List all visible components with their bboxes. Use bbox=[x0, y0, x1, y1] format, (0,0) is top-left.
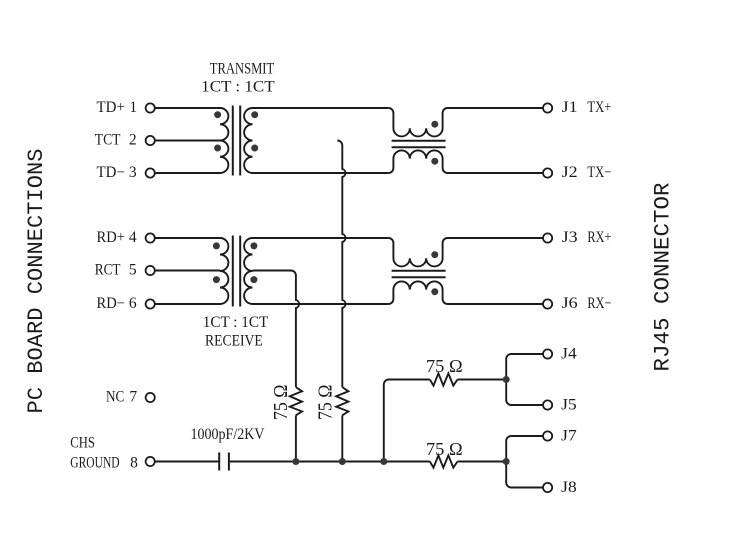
choke L2 bottom winding to J6 bbox=[388, 281, 543, 304]
resistor R4 75ohm zigzag bbox=[430, 455, 458, 467]
wire T2 secondary top to L2 bbox=[253, 237, 389, 239]
svg-text:1: 1 bbox=[129, 99, 137, 116]
svg-text:PC BOARD CONNECTIONS: PC BOARD CONNECTIONS bbox=[24, 149, 49, 414]
resistor R1 75ohm zigzag bbox=[290, 387, 302, 415]
svg-text:1CT : 1CT: 1CT : 1CT bbox=[203, 314, 269, 331]
junction node B bbox=[292, 458, 299, 465]
pin 2 terminal circle bbox=[146, 136, 155, 145]
transformer T1 secondary winding bbox=[244, 108, 252, 173]
svg-text:J6: J6 bbox=[562, 295, 578, 312]
svg-text:6: 6 bbox=[129, 295, 137, 312]
pin 3 terminal circle bbox=[146, 168, 155, 177]
svg-text:7: 7 bbox=[129, 389, 137, 406]
svg-text:TX+: TX+ bbox=[587, 99, 611, 116]
svg-text:J5: J5 bbox=[561, 397, 577, 414]
svg-text:J7: J7 bbox=[561, 428, 577, 445]
capacitor C1 1000pF/2KV plates bbox=[219, 453, 229, 471]
choke L2 core bbox=[392, 271, 446, 278]
choke L1 bottom winding to J2 bbox=[388, 150, 543, 173]
wire pin2 to T1 primary center tap bbox=[155, 140, 220, 142]
wire node E to J4 and J5 bbox=[506, 354, 543, 405]
transformer T2 secondary winding bbox=[244, 238, 252, 304]
choke L2 top winding to J3 bbox=[388, 238, 543, 266]
terminal J1 circle bbox=[543, 103, 552, 112]
T1 phase dots bbox=[214, 111, 221, 118]
choke L1 core bbox=[392, 141, 446, 148]
wire T2 secondary bottom to L2 bbox=[253, 303, 389, 305]
transformer T1 core bbox=[233, 106, 240, 176]
svg-text:NC: NC bbox=[106, 389, 124, 406]
terminal J3 circle bbox=[543, 233, 552, 242]
svg-text:TX−: TX− bbox=[587, 164, 611, 181]
junction node C bbox=[380, 458, 387, 465]
svg-text:RJ45 CONNECTOR: RJ45 CONNECTOR bbox=[651, 182, 676, 371]
L2 phase dots bbox=[431, 251, 438, 258]
wire pin5 to T2 primary center tap bbox=[155, 270, 220, 272]
wire pin8 to C1 bbox=[155, 461, 219, 463]
svg-text:GROUND: GROUND bbox=[70, 454, 119, 471]
transformer T2 primary winding bbox=[220, 238, 228, 304]
transformer T1 primary winding bbox=[220, 108, 228, 173]
terminal J6 circle bbox=[543, 299, 552, 308]
svg-text:75 Ω: 75 Ω bbox=[426, 356, 463, 376]
pin 1 terminal circle bbox=[146, 103, 155, 112]
wire pin4 to T2 primary bbox=[155, 237, 220, 239]
junction node E bbox=[503, 376, 510, 383]
svg-text:RCT: RCT bbox=[95, 262, 121, 279]
terminal J7 circle bbox=[543, 431, 552, 440]
svg-text:J4: J4 bbox=[561, 346, 577, 363]
pin 6 terminal circle bbox=[146, 299, 155, 308]
ground bus wire R4 to node D bbox=[458, 461, 507, 463]
svg-text:RX+: RX+ bbox=[587, 229, 611, 246]
wire R2 to ground bus bbox=[341, 415, 343, 461]
wire R3 to node E bbox=[458, 379, 507, 381]
svg-text:1CT : 1CT: 1CT : 1CT bbox=[201, 79, 275, 96]
svg-text:J2: J2 bbox=[562, 164, 578, 181]
svg-text:75 Ω: 75 Ω bbox=[426, 439, 463, 459]
terminal J8 circle bbox=[543, 483, 552, 492]
svg-text:3: 3 bbox=[129, 164, 137, 181]
svg-text:4: 4 bbox=[129, 229, 137, 246]
wire pin1 to T1 primary bbox=[155, 107, 220, 109]
wire node D to J7 and J8 bbox=[506, 436, 543, 488]
svg-text:5: 5 bbox=[129, 262, 137, 279]
svg-text:TCT: TCT bbox=[95, 132, 121, 149]
resistor R3 75ohm zigzag bbox=[430, 373, 458, 385]
svg-text:TD+: TD+ bbox=[97, 99, 125, 116]
svg-text:J1: J1 bbox=[562, 99, 578, 116]
terminal J4 circle bbox=[543, 349, 552, 358]
pin 5 terminal circle bbox=[146, 266, 155, 275]
svg-text:75 Ω: 75 Ω bbox=[315, 385, 337, 421]
ground bus wire C1 to R4 bbox=[229, 461, 430, 463]
wire T1 secondary top to L1 bbox=[253, 107, 389, 109]
wire receive center-tap vertical (node B) bbox=[253, 271, 300, 388]
svg-text:TD−: TD− bbox=[97, 164, 125, 181]
svg-text:8: 8 bbox=[130, 454, 138, 471]
wire pin6 to T2 primary bbox=[155, 303, 220, 305]
pin 7 terminal circle bbox=[146, 393, 155, 402]
L1 phase dots bbox=[431, 121, 438, 128]
pin 4 terminal circle bbox=[146, 233, 155, 242]
resistor R2 75ohm zigzag bbox=[336, 387, 348, 415]
terminal J2 circle bbox=[543, 168, 552, 177]
svg-text:J8: J8 bbox=[561, 479, 577, 496]
transformer T2 core bbox=[233, 236, 240, 307]
wire T1 secondary bottom to L1 bbox=[253, 172, 389, 174]
pin 8 terminal circle bbox=[146, 457, 155, 466]
T2 phase dots bbox=[213, 242, 220, 249]
choke L1 top winding to J1 bbox=[388, 108, 543, 136]
wire pin3 to T1 primary bbox=[155, 172, 220, 174]
svg-text:75 Ω: 75 Ω bbox=[270, 385, 292, 421]
svg-text:RD−: RD− bbox=[97, 295, 125, 312]
wire R1 to ground bus bbox=[295, 415, 297, 461]
svg-text:RX−: RX− bbox=[587, 295, 611, 312]
junction node A bbox=[339, 458, 346, 465]
svg-text:RD+: RD+ bbox=[97, 229, 125, 246]
junction node D bbox=[503, 458, 510, 465]
wire transmit center-tap vertical (node A) bbox=[337, 141, 345, 388]
svg-text:CHS: CHS bbox=[70, 435, 95, 452]
svg-text:1000pF/2KV: 1000pF/2KV bbox=[191, 426, 266, 443]
svg-text:2: 2 bbox=[129, 132, 137, 149]
terminal J5 circle bbox=[543, 400, 552, 409]
wire node C up to R3 bbox=[384, 380, 430, 462]
svg-text:TRANSMIT: TRANSMIT bbox=[210, 60, 275, 77]
svg-text:RECEIVE: RECEIVE bbox=[205, 333, 263, 350]
svg-text:J3: J3 bbox=[562, 229, 578, 246]
